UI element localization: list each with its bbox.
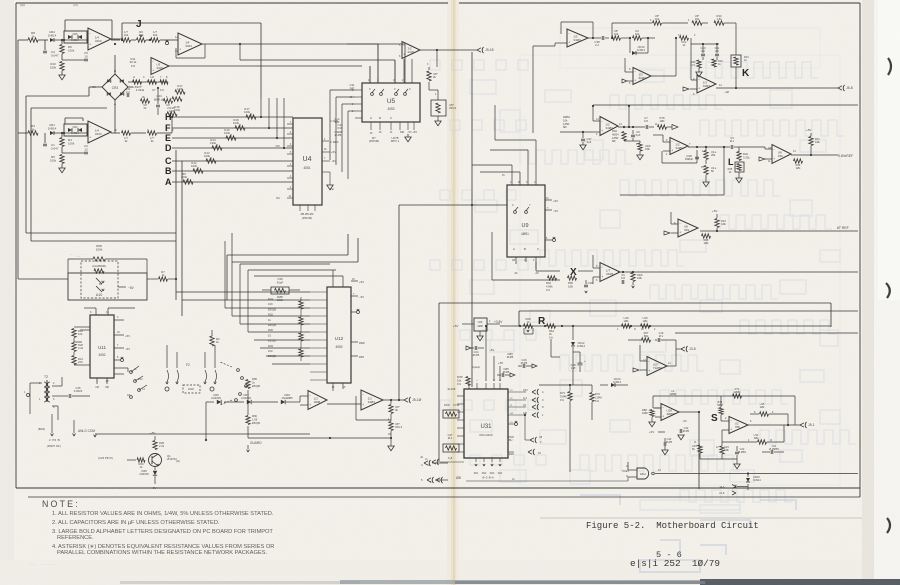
wire ladder verticals to top network [260, 98, 262, 117]
wire U14 out [651, 75, 676, 77]
resistor U15 10k a [750, 413, 759, 415]
ground below R10 [61, 71, 63, 75]
resistor U40 10k [638, 143, 642, 151]
IC U5 4053 [362, 83, 420, 122]
IC U31 MC14433 [464, 389, 508, 458]
op-amp U28 3080 [661, 404, 679, 421]
U9 staircase wires [472, 164, 512, 166]
wire U13 feedback box [560, 22, 562, 34]
wire U6 out to connector J9-18 [420, 49, 477, 51]
wire left border drop [17, 40, 19, 133]
wire T2 bottom [52, 405, 58, 407]
resistor U8 333.3 [390, 414, 392, 421]
wire long bus y=231 [700, 230, 858, 232]
op-amp U1A 3403 [54, 39, 88, 41]
resistor column left of U12 [299, 301, 303, 309]
wire X row [536, 270, 560, 272]
connector J5-1 [800, 423, 804, 427]
resistor U8 3k [390, 400, 392, 404]
ground U14 [627, 80, 633, 82]
box U8 333.3 [428, 82, 430, 90]
wire feedback loop U2A [64, 118, 66, 124]
resistor U4* 8k [704, 166, 708, 175]
U5 internal switches [371, 93, 374, 96]
resistor U6* 2k [680, 36, 689, 40]
resistor R12 100k [193, 169, 203, 173]
U12 right pins [351, 280, 358, 282]
faint line above caption [540, 517, 862, 519]
wire long bus y=272 [618, 271, 858, 273]
wire routes to U12 [176, 291, 310, 293]
op-amp U18 339 [772, 145, 791, 164]
resistor BT1 500 [719, 408, 723, 415]
wire U3B out joins U5 [369, 66, 371, 83]
diode CR15 1N914 [747, 474, 749, 478]
op-amp U21B 3403 [361, 390, 383, 410]
wire U3A feedback loop [175, 48, 177, 58]
wire left drop to caps [690, 38, 692, 44]
U31 right pins Q outputs [508, 391, 526, 393]
U9 right pins [545, 199, 552, 201]
wire U15 out to J5-8 [716, 87, 838, 89]
wire gate output long line [655, 473, 858, 475]
op-amp U22 788 [729, 417, 748, 434]
wire guard rail [248, 437, 390, 439]
page center fold crease [447, 0, 459, 585]
resistor R72 2.0M [590, 393, 594, 402]
capacitor C37 5uF [582, 132, 584, 138]
resistor R10 100k [60, 62, 64, 71]
wire HFEDCBA to U4 [227, 117, 229, 192]
IC U11 4052 [90, 315, 114, 378]
wire Q1 emitter down [154, 476, 156, 484]
resistor U6 10k b [633, 36, 642, 40]
resistor R3 [18, 132, 28, 134]
resistor R38 10k [702, 234, 711, 238]
U5 left pins [355, 89, 362, 91]
wire long bus y=333 [675, 332, 858, 334]
op-amp U17 3403 [670, 138, 688, 155]
diode CR12 1N914 [572, 326, 574, 340]
wire U4-U5 links [329, 90, 331, 160]
resistor R19 100k [226, 136, 236, 140]
wire bus y=326 segment [777, 325, 831, 327]
wire U16 out row [618, 126, 643, 128]
wire into U10 left [17, 250, 19, 279]
wire EOC to gate [627, 462, 629, 470]
capacitor C2 [61, 147, 63, 153]
wire CR chain [205, 402, 207, 440]
resistor R32 1k [712, 59, 716, 67]
wire U12 top entries [332, 270, 334, 287]
wire U3A output to right [202, 43, 405, 45]
diode CR4 [38, 39, 48, 41]
ground below U8 box [437, 116, 439, 121]
wire U13 input [555, 42, 567, 44]
resistor row U7 3.333k [128, 81, 168, 83]
resistor U15 5k [698, 445, 702, 453]
ground R33 [698, 68, 700, 72]
U4 right pins [322, 140, 329, 142]
U11 lower right pins [114, 367, 128, 369]
wire F2 verticals [166, 345, 168, 368]
boxed resistor network at U31 left lower [443, 444, 459, 452]
wire verticals above U12 [239, 264, 241, 324]
wire C28 rail [550, 339, 552, 357]
wire U2A out row [111, 132, 120, 134]
wire U17 feedback loop [661, 151, 663, 163]
resistor R6A 2k 1% [547, 324, 556, 328]
op-amp U27 TL084 [647, 357, 667, 376]
resistor R13 100k [206, 159, 216, 163]
capacitor C1 [44, 133, 46, 143]
wire long drop from U28 out [698, 412, 700, 489]
wire U28 out [679, 411, 699, 413]
capacitor C28 1.0 [578, 362, 583, 364]
bottom scan streak [120, 581, 360, 584]
resistor U8 row [141, 99, 150, 103]
resistor R20 2.2k [72, 343, 76, 352]
IC U26 regulator box [474, 318, 487, 331]
wire ladder row extensions [286, 120, 293, 122]
connectors J1 into U31 left [432, 460, 436, 464]
op-amp U3B 3403 [151, 58, 169, 75]
resistor R67 86k and C19 [642, 338, 651, 342]
right page edge shadow [862, 0, 876, 585]
wire long bus y=105 [593, 104, 858, 106]
wire feedback loop U1A [64, 20, 66, 31]
wire U3B output [169, 65, 362, 67]
wire bottom return [390, 431, 392, 443]
resistor R33 3.3 [697, 60, 701, 68]
U9 top pins [511, 165, 513, 185]
wire U18 out 5.0REF [791, 154, 838, 156]
wire top lines to U5 pins [347, 43, 378, 45]
resistor U4* 28k [704, 151, 708, 160]
wire vertical x=182 drop from C row [181, 161, 183, 316]
wire U9 left pin from x=399 [399, 204, 507, 206]
resistor R40 10k [631, 273, 635, 282]
resistor R65b 10k [568, 276, 577, 280]
boxed resistor network R70 47.5k at U31 left [443, 410, 459, 418]
wire route from U5 bottom to U12 region b [357, 238, 359, 262]
capacitor C36 0.0022 [52, 395, 68, 397]
resistor R36 10k [794, 159, 803, 163]
wire U3A out joins U5 pin [404, 44, 406, 83]
wire U27 output [667, 365, 676, 367]
wire vertical x=176 [175, 150, 177, 300]
resistor R19 10k [80, 329, 90, 331]
op-amp U21A 3403 [308, 391, 327, 410]
faint ghost text lower-left [28, 254, 127, 568]
U12 left pin wires [310, 291, 327, 293]
wire U17 big loop rail [723, 147, 725, 195]
resistor R15 100k [167, 112, 177, 116]
rotary switch contacts [237, 369, 240, 372]
wire route from U5 bottom to U12 region a [347, 234, 349, 255]
U5 top pins [369, 66, 371, 83]
op-amp U2A 3403 [54, 132, 88, 134]
resistor R78 10k [658, 125, 667, 129]
U31 right lower pins [508, 423, 514, 425]
wire top bus J to ladder network [122, 22, 261, 24]
capacitor C4 [44, 40, 46, 50]
capacitor C6 5uF [631, 134, 635, 136]
top-left smudges [20, 4, 25, 6]
resistor divider row 1/7 10k - R6 250 - 1/7 10k [111, 39, 120, 41]
op-amp U6 3403 top [402, 42, 420, 59]
resistor R34 3.32k [737, 152, 741, 161]
wire U21B feedback [355, 396, 357, 420]
blue ghost lower-right blob [580, 495, 796, 572]
wire C9 to U18 [740, 146, 765, 148]
resistor U15 10k b [720, 446, 724, 454]
resistor R8 [18, 39, 28, 41]
wire 6B bus [466, 480, 628, 482]
diode box CR2 [64, 124, 87, 136]
op-amp U13 3403 [567, 29, 588, 47]
resistor U19 10k b [641, 324, 650, 328]
trimpot wiper loop under R68 [523, 328, 525, 334]
wire U6 input pins from U5 [403, 59, 405, 83]
buffer arrow after R78 [672, 125, 678, 130]
resistor U8 2k right of U5 [428, 67, 430, 70]
resistor U6* 10k top right [653, 21, 662, 25]
diode CR13 1N914 [600, 384, 608, 386]
resistor R21 220 [72, 356, 76, 365]
resistor R17 120k [175, 90, 185, 94]
resistor R29 [127, 459, 136, 461]
gate U23 4012 [637, 468, 649, 479]
U11 right pins [114, 319, 124, 321]
diode CR6 1N4005 [206, 401, 214, 403]
diode CR9 1N4005 [281, 400, 285, 404]
IC U9 4051 [507, 185, 545, 257]
wire T2 right to C36 [52, 385, 62, 387]
resistor R63 4024 [622, 132, 626, 141]
ground S region [700, 458, 737, 460]
wire R72/R73 top rail [539, 384, 592, 386]
resistor R28 2.2k [153, 441, 157, 450]
U12 bottom pins [332, 383, 334, 391]
connector J3-8 [676, 348, 681, 350]
diode CR7 1N4005 [224, 401, 244, 403]
schematic border frame [16, 2, 448, 4]
wire U11 left stubs [73, 338, 75, 342]
blue ghost bleed-through pattern [430, 28, 856, 513]
IC U4 4051 [293, 118, 322, 205]
wire U9 bottom box [491, 232, 493, 280]
wire long bus pair y=303/311 [439, 302, 831, 304]
wire -5V stub [118, 286, 126, 288]
resistor R88 100 [650, 410, 654, 417]
resistor R7 1k right of U10 [147, 278, 158, 280]
op-amp U20 339 [678, 219, 698, 237]
wire T2 left [30, 382, 42, 384]
wire Q0 to connector 3 [524, 415, 526, 440]
diode CR1 [50, 131, 54, 135]
op-amp U16 3403 [600, 117, 618, 136]
capacitor C24 0.05 [474, 346, 476, 350]
U31 bottom pins [475, 458, 477, 462]
capacitor C5 [61, 54, 63, 60]
wire bus into U31 [440, 461, 464, 463]
U4 bottom pins [299, 205, 301, 211]
resistor R2 1k [210, 336, 214, 346]
binder curl marks right edge [888, 58, 891, 75]
wire U16 feedback to bus [628, 106, 630, 127]
resistor R14 190k [212, 146, 222, 150]
resistor R18 100k [172, 97, 182, 101]
resistor R5 100k [60, 155, 64, 164]
transistor Q1 2N3702 [149, 454, 162, 467]
resistor R9 100k [61, 40, 63, 44]
trimpot R31 1k box [731, 55, 741, 67]
resistor R17 100k [246, 115, 256, 119]
wire +3.8V rail [500, 325, 777, 327]
bridge rectifier CR3 [102, 74, 128, 100]
optocoupler U10 dashed box [81, 261, 118, 298]
ground U26 [479, 331, 481, 336]
resistor U19 10k a [622, 324, 631, 328]
wire route A [25, 96, 27, 233]
trimpot R35 1k box [735, 162, 744, 172]
IC U12 4052 [327, 287, 351, 383]
wire U27 feedback [666, 339, 676, 341]
op-amp U15 3403 [697, 75, 716, 93]
U31 left pins [457, 395, 464, 397]
U4 ground stub [322, 171, 330, 173]
diode CR10 1N914 [629, 38, 631, 53]
wire U16 inputs [593, 120, 600, 122]
op-amp U3A 3403 [166, 39, 178, 41]
resistor R73 3.64k [568, 392, 572, 401]
resistor R30 1.8k [714, 21, 724, 25]
resistor U6* 23k [692, 21, 702, 25]
ground below R5 [61, 164, 63, 168]
wire S feedback top rail [653, 395, 795, 397]
diode CR8 1N4005 [154, 467, 156, 470]
test point circle [149, 39, 151, 41]
wire vertical right-page x=472 [471, 52, 473, 387]
resistor R9 100k [183, 180, 193, 184]
op-amp U19 3403 [600, 263, 620, 282]
wire U11 top [95, 308, 97, 315]
U9 internal switches [514, 211, 517, 214]
U11 bottom pins [96, 378, 98, 384]
resistor R68 1k [524, 324, 533, 328]
U9 bottom pins [515, 257, 517, 264]
resistor R4 100k [61, 133, 63, 137]
wire route B [30, 108, 32, 241]
wire mid horizontals into U5 region [240, 59, 395, 61]
wire U31 pin up to +3.8V rail [485, 326, 487, 381]
U10 outer box [68, 273, 147, 300]
wire R63 C6 bottoms [624, 140, 640, 142]
switch SW contacts right of U11 [130, 371, 133, 374]
wire bridge vertical [114, 55, 116, 74]
diode box CR5 1N914 [64, 31, 87, 43]
resistor U6 10k a [612, 36, 621, 40]
wire U21 to J5-10 [383, 399, 404, 401]
wire U17 out row [688, 146, 728, 148]
op-amp U14 3403 [633, 68, 651, 85]
wire big route from U9 to left page [398, 205, 400, 400]
wire R58 loop [68, 258, 93, 260]
U31 top pins [468, 383, 470, 389]
resistor R72 100k on rail [733, 394, 742, 398]
U4 left pins [287, 123, 293, 125]
resistor R18 100k [235, 126, 245, 130]
resistor R64 4.99k [548, 276, 557, 280]
resistor U13 10k feedback [758, 440, 767, 444]
wire U22 out [748, 424, 800, 426]
